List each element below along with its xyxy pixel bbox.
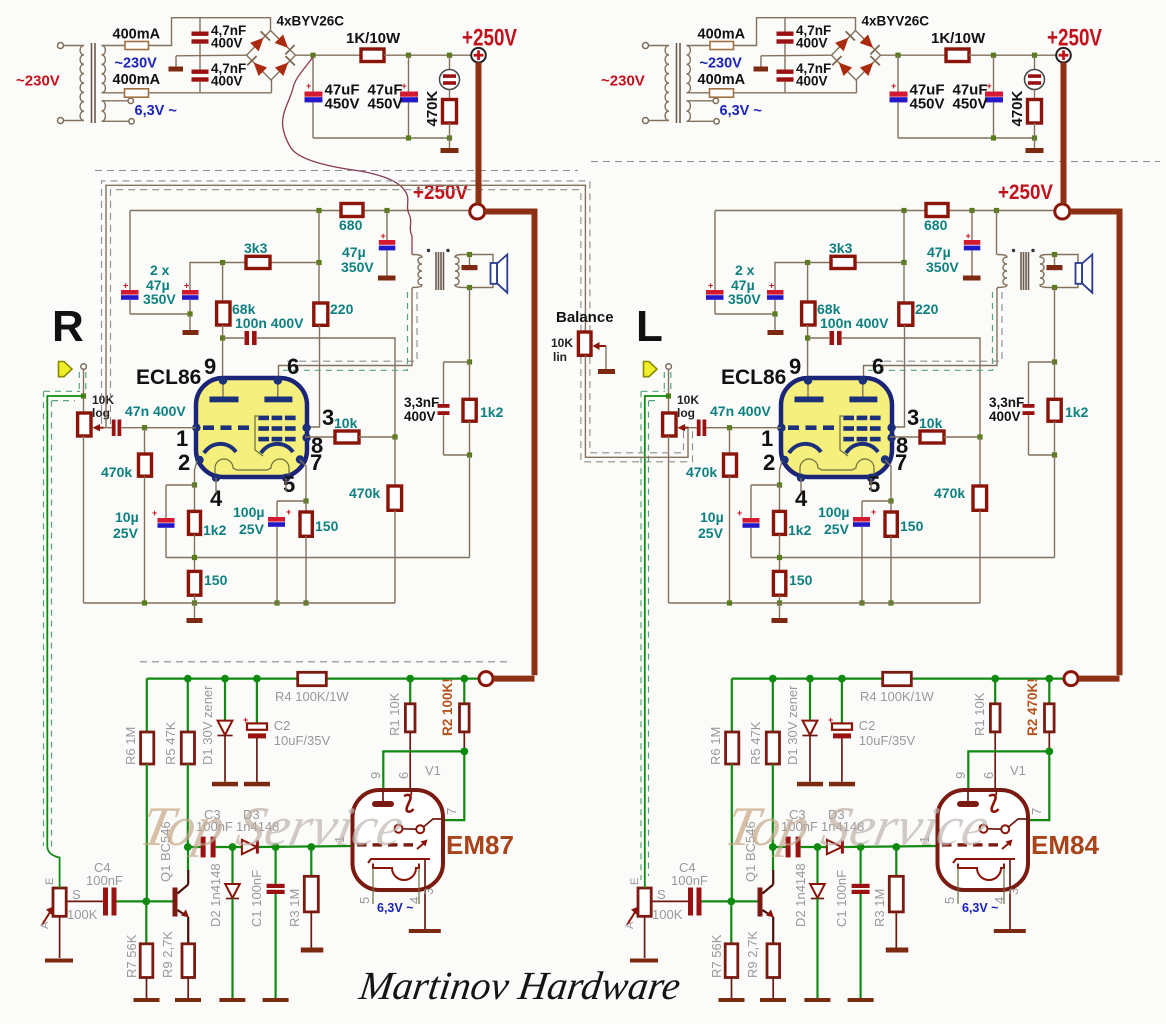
shield dashes anode run upper (R channel amp): [283, 292, 417, 361]
svg-text:R3 1M: R3 1M: [287, 889, 302, 927]
node pentode cathode (R channel amp): [303, 498, 308, 503]
svg-text:4xBYV26C: 4xBYV26C: [862, 14, 930, 29]
wire 47n to grid pin1 (L channel amp): [706, 427, 781, 429]
node R5 bus (R channel indicator): [184, 675, 192, 683]
svg-text:C1 100nF: C1 100nF: [249, 870, 264, 927]
capacitor 3,3nF 400V (R channel amp): [443, 362, 445, 404]
svg-text:Balance: Balance: [556, 309, 614, 326]
wire input to pot (R channel amp): [83, 369, 85, 413]
wire collector (L channel indicator): [772, 847, 774, 871]
svg-text:350V: 350V: [143, 291, 176, 307]
node tail ground (R channel amp): [192, 600, 197, 605]
svg-text:6,3V ~: 6,3V ~: [720, 103, 762, 119]
svg-text:A: A: [39, 921, 51, 929]
capacitor C1 100nF (R channel indicator): [275, 847, 277, 884]
shield dashes anode run upper (L channel amp): [868, 292, 1002, 361]
svg-text:3k3: 3k3: [244, 240, 268, 256]
resistor 1k2 NFB (L channel amp): [1054, 362, 1056, 399]
node D2 tap (L channel indicator): [814, 843, 822, 851]
node smoothing cap 2 (R channel PSU): [406, 53, 411, 58]
svg-text:150: 150: [204, 572, 228, 588]
wire C3 to D3 (L channel indicator): [801, 846, 827, 848]
thick +250V feed wire (L): [1064, 62, 1120, 678]
ECL86 pentode baffle line (R channel amp): [255, 416, 263, 456]
ECL86 pentode grid rows (R channel amp): [258, 416, 269, 421]
shield dashes input stub (L channel amp): [663, 372, 665, 394]
svg-text:5: 5: [357, 897, 372, 904]
svg-text:10uF/35V: 10uF/35V: [274, 733, 331, 748]
input arrow marker (R channel amp): [59, 362, 73, 377]
ground bar R3 (R channel indicator): [301, 948, 324, 953]
svg-text:+: +: [891, 81, 896, 91]
resistor R7 56K (R channel indicator): [145, 901, 147, 943]
tube EM84 envelope (L channel indicator): [938, 790, 1029, 890]
wire left rail drop (R channel amp): [129, 211, 131, 291]
terminal +250V feed (R channel indicator): [479, 672, 493, 686]
node R1 bus (R channel indicator): [406, 675, 414, 683]
svg-text:680: 680: [924, 217, 948, 233]
svg-text:10K: 10K: [677, 393, 699, 407]
output transformer primary (R channel amp): [412, 255, 422, 288]
node 47u decoupling tap (L channel amp): [969, 208, 974, 213]
svg-text:400V: 400V: [404, 409, 436, 424]
node grid junction (L channel amp): [977, 434, 982, 439]
svg-text:47n 400V: 47n 400V: [125, 403, 186, 419]
capacitor C4 100nF (R channel indicator): [103, 888, 108, 916]
heater terminal bottom (R channel PSU): [129, 119, 134, 124]
wire cathode to 10u (R channel amp): [166, 484, 195, 486]
wire C4 to base (L channel indicator): [702, 900, 758, 902]
wire pot bottom (R channel amp): [83, 436, 85, 603]
ECL86 pin dots (R channel amp): [219, 376, 227, 384]
resistor 470K (bleeder) (L channel PSU): [1028, 100, 1042, 124]
resistor 150 tail (R channel amp): [188, 571, 200, 595]
tube ECL86 envelope (L channel amp): [781, 378, 892, 477]
node R3 tap (L channel indicator): [892, 843, 900, 851]
svg-text:100n 400V: 100n 400V: [820, 315, 889, 331]
capacitor 47u 350V decoupling (L channel amp): [971, 211, 973, 241]
svg-text:7: 7: [444, 808, 459, 815]
svg-text:R4 100K/1W: R4 100K/1W: [275, 689, 349, 704]
output transformer core (R channel amp): [435, 252, 437, 290]
node input tap (R channel amp): [81, 393, 86, 398]
wire pentode anode pin6 (L channel amp): [864, 288, 998, 381]
node 100u ground (L channel amp): [859, 600, 864, 605]
wire ground rail (R channel amp): [84, 602, 396, 604]
ground bar PSU (R channel PSU): [449, 138, 451, 148]
ground bar C2 (L channel indicator): [829, 782, 855, 787]
svg-text:R7 56K: R7 56K: [124, 934, 139, 978]
resistor 470k grid leak (L channel amp): [729, 428, 731, 454]
wire wiper to 47n (R channel amp): [104, 427, 112, 429]
resistor 220 screen (L channel amp): [903, 263, 905, 304]
resistor 3k3 (R channel amp): [246, 256, 270, 268]
svg-text:25V: 25V: [113, 525, 139, 541]
svg-text:C2: C2: [274, 718, 291, 733]
node bridge output (L channel PSU): [895, 53, 900, 58]
node triode anode (R channel amp): [220, 335, 225, 340]
resistor R4 100K/1W (L channel indicator): [883, 672, 912, 685]
resistor R9 2,7K (L channel indicator): [767, 944, 780, 978]
capacitor 3,3nF 400V (L channel amp): [1028, 362, 1030, 404]
svg-text:R6 1M: R6 1M: [708, 727, 723, 765]
svg-text:9: 9: [368, 772, 383, 779]
capacitor 4,7nF lower (R channel PSU): [192, 70, 209, 74]
ground bar R7 (L channel indicator): [719, 998, 745, 1002]
node 3k3 left (R channel amp): [220, 260, 225, 265]
potentiometer S 100K (L channel indicator): [638, 888, 651, 916]
EM84 target bar pin9 (L channel indicator): [957, 801, 979, 807]
wire anode to 100n (R channel amp): [223, 337, 244, 339]
wire NFB from secondary (R channel amp): [469, 288, 471, 363]
resistor 1k2 NFB (R channel amp): [469, 362, 471, 399]
signal cable to indicator (L channel indicator): [645, 396, 669, 888]
capacitor 47n 400V (R channel amp): [112, 420, 116, 437]
ground bar R7 (R channel indicator): [134, 998, 160, 1002]
transistor Q1 BC546 (R channel indicator): [173, 888, 178, 917]
balance wiper ground: [605, 346, 607, 369]
node C1 tap (R channel indicator): [272, 843, 280, 851]
resistor 150 pentode (L channel amp): [890, 501, 892, 512]
capacitor 47n 400V (L channel amp): [697, 420, 701, 437]
terminal +250V output (L channel PSU): [1056, 48, 1071, 63]
output transformer secondary (R channel amp): [455, 255, 464, 288]
wire secondary top (R channel amp): [464, 255, 493, 264]
chassis bar secondary (R channel amp): [469, 255, 471, 266]
svg-text:log: log: [677, 406, 695, 420]
bridge rectifier 4xBYV26C frame (R channel PSU): [247, 31, 296, 81]
svg-text:6: 6: [396, 772, 411, 779]
diode D3 1n4148 (L channel indicator): [827, 840, 842, 854]
diode D1 30V zener (R channel indicator): [224, 679, 226, 721]
wire screen feed riser (L channel amp): [903, 211, 905, 263]
node 100u ground (R channel amp): [274, 600, 279, 605]
node 150 ground (R channel amp): [303, 600, 308, 605]
node cathode (L channel amp): [777, 482, 782, 487]
transformer TR heater 6.3V winding (L channel PSU): [687, 101, 691, 122]
resistor 470k grid leak (R channel amp): [144, 428, 146, 454]
svg-text:6: 6: [981, 772, 996, 779]
resistor 150 tail (L channel amp): [773, 571, 785, 595]
wire anode rail (L channel amp): [808, 262, 904, 264]
speaker (R channel amp): [491, 263, 498, 284]
tube EM87 envelope (R channel indicator): [353, 790, 444, 890]
heater terminal top (R channel PSU): [128, 98, 133, 103]
svg-text:10k: 10k: [919, 415, 943, 431]
EM84 cathode U fold (L channel indicator): [958, 864, 1004, 881]
wire pot bottom (L channel amp): [668, 436, 670, 603]
svg-text:L: L: [636, 302, 663, 351]
svg-text:3,3nF: 3,3nF: [989, 395, 1024, 410]
wire NFB top link (L channel amp): [1029, 361, 1055, 363]
shield dashes anode run lower (R channel amp): [283, 292, 408, 370]
svg-text:+: +: [152, 508, 157, 518]
ECL86 heater outline (L channel amp): [800, 459, 874, 477]
node secondary top (L channel amp): [1052, 252, 1057, 257]
node NFB top (R channel amp): [467, 359, 472, 364]
diode D3 1n4148 (R channel indicator): [242, 840, 257, 854]
node 150 ground (L channel amp): [888, 600, 893, 605]
terminal +250V amp (R channel amp): [470, 204, 485, 219]
transformer TR primary winding (R channel PSU): [80, 46, 84, 121]
wire pin2 cathode (R channel amp): [195, 461, 198, 485]
wire +250V top rail (R channel amp): [130, 210, 470, 212]
node input tap (L channel amp): [666, 393, 671, 398]
node C1 tap (L channel indicator): [857, 843, 865, 851]
wire NFB rail (L channel amp): [751, 557, 1055, 559]
svg-text:470k: 470k: [101, 464, 132, 480]
capacitor C2 10uF/35V (R channel indicator): [256, 679, 258, 725]
ECL86 triode anode plate (L channel amp): [795, 397, 824, 403]
svg-text:5: 5: [868, 472, 880, 497]
neon lamp indicator (L channel PSU): [1034, 55, 1036, 69]
cable shield dashes left (L channel indicator): [641, 391, 665, 880]
resistor 3k3 (L channel amp): [831, 256, 855, 268]
node R2 bus (L channel indicator): [1045, 675, 1053, 683]
svg-text:R2 470K!: R2 470K!: [1025, 678, 1040, 736]
svg-text:450V: 450V: [953, 96, 988, 113]
resistor 1K/10W (L channel PSU): [946, 49, 969, 62]
svg-text:400V: 400V: [796, 74, 828, 89]
wire R2 to pin7 (R channel indicator): [443, 751, 464, 820]
wiper arrow S pot (L channel indicator): [627, 911, 636, 926]
svg-text:+: +: [708, 281, 713, 291]
resistor 680 (L channel amp): [926, 204, 948, 217]
svg-text:3: 3: [322, 405, 334, 430]
node bottom rail cap2 (L channel PSU): [991, 135, 996, 140]
svg-text:3,3nF: 3,3nF: [404, 395, 439, 410]
svg-text:25V: 25V: [239, 521, 265, 537]
wire R2 to pin7 (L channel indicator): [1028, 751, 1049, 820]
resistor 470k grid2 (R channel amp): [394, 437, 396, 486]
ECL86 heater outline (R channel amp): [215, 459, 289, 477]
ECL86 triode anode plate (R channel amp): [210, 397, 239, 403]
wire bridge output (L channel PSU): [881, 54, 947, 56]
wire bus corner down (L channel indicator): [731, 679, 733, 732]
wire emitter to R9 (L channel indicator): [772, 917, 774, 944]
diode D top-right (BYV26C) (L channel PSU): [860, 35, 874, 48]
capacitor 4,7nF upper (R channel PSU): [199, 18, 201, 32]
transistor Q1 BC546 (L channel indicator): [758, 888, 763, 917]
fuse F1 400mA (L channel PSU): [710, 42, 734, 50]
diode D top-right (BYV26C) (R channel PSU): [275, 35, 289, 48]
chassis ground bar (filter caps) (L channel PSU): [754, 67, 769, 72]
EM87 cathode U fold (R channel indicator): [373, 864, 419, 881]
ground bar 47u decoupling (L channel amp): [963, 276, 981, 281]
svg-text:1k2: 1k2: [480, 404, 504, 420]
wire cathode to 100u (L channel amp): [862, 500, 891, 502]
wire D3 to tube pin1 (R channel indicator): [259, 846, 353, 847]
svg-text:10µ: 10µ: [115, 509, 139, 525]
svg-text:+: +: [769, 281, 774, 291]
ground bar D2 (R channel indicator): [219, 998, 245, 1002]
ECL86 triode cathode (L channel amp): [789, 444, 821, 453]
long dashed border R top: [95, 170, 578, 172]
node neon tap (L channel PSU): [1032, 53, 1037, 58]
terminal +250V feed (L channel indicator): [1064, 672, 1078, 686]
wire secondary bottom to fuse2 (R channel PSU): [102, 92, 125, 94]
wire D3 to tube pin1 (L channel indicator): [844, 846, 938, 847]
balance cable shield outer: [102, 181, 590, 424]
node 3k3 right (R channel amp): [316, 260, 321, 265]
long dashed border R bottom: [140, 661, 509, 663]
svg-text:400mA: 400mA: [698, 27, 746, 43]
mains input terminal (bottom) (R channel PSU): [58, 118, 64, 124]
ground bar R9 (L channel indicator): [760, 998, 786, 1002]
svg-text:ECL86: ECL86: [136, 366, 201, 389]
input terminal (R channel amp): [81, 364, 87, 370]
node bottom rail cap2 (R channel PSU): [406, 135, 411, 140]
chassis ground bar (filter caps) (R channel PSU): [169, 67, 184, 72]
wire mains bottom (L channel PSU): [649, 120, 666, 122]
wire 100n to grid stopper (L channel amp): [842, 338, 980, 437]
node collector (R channel indicator): [184, 843, 192, 851]
wire bus corner down (R channel indicator): [146, 679, 148, 732]
wire left rail drop (L channel amp): [714, 211, 716, 291]
svg-text:1K/10W: 1K/10W: [346, 30, 401, 47]
svg-text:V1: V1: [1010, 763, 1026, 778]
wire ground to bridge minus (R channel PSU): [176, 54, 247, 57]
capacitor C2 10uF/35V (L channel indicator): [841, 679, 843, 725]
svg-text:100nF: 100nF: [671, 873, 708, 888]
svg-text:150: 150: [900, 518, 924, 534]
EM87 grid dashes (R channel indicator): [357, 843, 367, 846]
svg-text:470K: 470K: [1009, 90, 1026, 126]
node 3k3 left (L channel amp): [805, 260, 810, 265]
wire pin8 to 10k (L channel amp): [890, 436, 920, 438]
svg-text:1K/10W: 1K/10W: [931, 30, 986, 47]
svg-text:R9 2,7K: R9 2,7K: [160, 931, 175, 978]
wire collector stub (L channel indicator): [772, 870, 774, 885]
svg-text:3: 3: [1006, 888, 1021, 895]
diode D top-left (BYV26C) (L channel PSU): [835, 38, 848, 52]
capacitor 4,7nF upper (L channel PSU): [784, 18, 786, 32]
EM84 grid dashes (L channel indicator): [942, 843, 952, 846]
EM87 cathode pin3 lead (R channel indicator): [424, 859, 426, 929]
svg-text:R9 2,7K: R9 2,7K: [745, 931, 760, 978]
svg-text:680: 680: [339, 217, 363, 233]
mains input terminal (bottom) (L channel PSU): [643, 118, 649, 124]
node bridge output (R channel PSU): [310, 53, 315, 58]
diode D bottom-left (BYV26C) (R channel PSU): [254, 63, 267, 77]
svg-text:5: 5: [283, 472, 295, 497]
resistor R2 (L channel indicator): [1048, 679, 1050, 704]
wire pin7 cathode (R channel amp): [300, 460, 306, 501]
resistor 220 screen (R channel amp): [318, 263, 320, 304]
node 470k ground (R channel amp): [142, 600, 147, 605]
wire PSU bottom rail (L channel PSU): [898, 137, 1035, 139]
heater terminal top (L channel PSU): [713, 98, 718, 103]
svg-text:6,3V ~: 6,3V ~: [135, 103, 177, 119]
node R2 bottom (R channel indicator): [460, 748, 468, 756]
resistor R5 47K (L channel indicator): [772, 679, 774, 732]
node NFB bottom (R channel amp): [467, 452, 472, 457]
node collector (L channel indicator): [769, 843, 777, 851]
svg-text:+: +: [381, 231, 386, 241]
resistor R3 1M (R channel indicator): [310, 847, 312, 876]
svg-text:~230V: ~230V: [601, 73, 645, 90]
svg-text:4: 4: [407, 897, 422, 904]
resistor R2 (R channel indicator): [463, 679, 465, 704]
svg-text:ECL86: ECL86: [721, 366, 786, 389]
node R5 bus (L channel indicator): [769, 675, 777, 683]
svg-text:100K: 100K: [67, 907, 98, 922]
svg-text:220: 220: [330, 301, 354, 317]
wire +V bus (R channel indicator): [147, 677, 479, 679]
cable shield dashes right (R channel indicator): [52, 401, 76, 850]
svg-text:470k: 470k: [686, 464, 717, 480]
svg-text:2 x: 2 x: [735, 262, 755, 278]
diode D bottom-left (BYV26C) (L channel PSU): [839, 63, 852, 77]
wire primary top stub (L channel PSU): [665, 45, 669, 47]
resistor 10k grid stopper (L channel amp): [920, 431, 944, 443]
resistor 10k grid stopper (R channel amp): [335, 431, 359, 443]
output transformer core (L channel amp): [1020, 252, 1022, 290]
EM84 deflector circles (L channel indicator): [980, 825, 988, 833]
svg-text:100µ: 100µ: [818, 504, 849, 520]
capacitor C4 100nF (L channel indicator): [688, 888, 693, 916]
pin 4 stub (L channel amp): [800, 478, 802, 493]
wire collector (R channel indicator): [187, 847, 189, 871]
wire secondary top to fuse (L channel PSU): [687, 45, 711, 47]
capacitor 100n 400V (R channel amp): [245, 331, 250, 345]
svg-text:100nF: 100nF: [86, 873, 123, 888]
svg-text:+250V: +250V: [462, 25, 517, 52]
resistor 470k grid2 (L channel amp): [979, 437, 981, 486]
terminal +250V amp (L channel amp): [1055, 204, 1070, 219]
node caps junction (L channel amp): [772, 311, 777, 316]
node R1 bus (L channel indicator): [991, 675, 999, 683]
speaker (L channel amp): [1076, 263, 1083, 284]
wire NFB to cathode rail (R channel amp): [469, 455, 471, 558]
hand-drawn B+ wire to output transformer (R): [283, 57, 412, 255]
node D1 bus (R channel indicator): [221, 675, 229, 683]
resistor R6 1M (L channel indicator): [726, 732, 739, 764]
transformer phase dots (L channel amp): [1012, 249, 1015, 252]
wire NFB bottom link (R channel amp): [444, 454, 470, 456]
svg-text:EM84: EM84: [1031, 830, 1099, 860]
svg-text:150: 150: [315, 518, 339, 534]
ground bar amp (R channel amp): [194, 603, 196, 618]
capacitor 100n 400V (L channel amp): [830, 331, 835, 345]
ground bar amp (L channel amp): [779, 603, 781, 618]
EM84 heater pin4 lead (L channel indicator): [1003, 868, 1005, 904]
signal cable to indicator (R channel indicator): [47, 396, 83, 888]
svg-text:D1 30V zener: D1 30V zener: [200, 685, 215, 765]
svg-text:E: E: [44, 878, 56, 885]
wire 100n to grid stopper (R channel amp): [257, 338, 395, 437]
wire C3 to D3 (R channel indicator): [216, 846, 242, 848]
svg-text:400mA: 400mA: [113, 27, 161, 43]
tube ECL86 envelope (R channel amp): [196, 378, 307, 477]
node grid leak tap (R channel amp): [142, 425, 147, 430]
svg-text:450V: 450V: [368, 96, 403, 113]
wire secondary bottom (L channel amp): [1049, 284, 1078, 288]
svg-text:6: 6: [872, 354, 884, 379]
wiper arrow S pot (R channel indicator): [42, 911, 51, 926]
transformer TR secondary 230V winding (R channel PSU): [102, 46, 106, 93]
wire primary bottom stub (L channel PSU): [665, 120, 669, 122]
resistor R1 10K (R channel indicator): [409, 679, 411, 704]
svg-text:7: 7: [895, 450, 907, 475]
ground bar PSU (L channel PSU): [1034, 138, 1036, 148]
svg-text:1k2: 1k2: [788, 522, 812, 538]
balance bottom shield inner: [590, 357, 684, 453]
capacitor 47uF 450V second (R channel PSU): [408, 55, 410, 91]
node 470k ground (L channel amp): [727, 600, 732, 605]
svg-text:+: +: [286, 507, 291, 517]
wire secondary top to fuse (R channel PSU): [102, 45, 126, 47]
